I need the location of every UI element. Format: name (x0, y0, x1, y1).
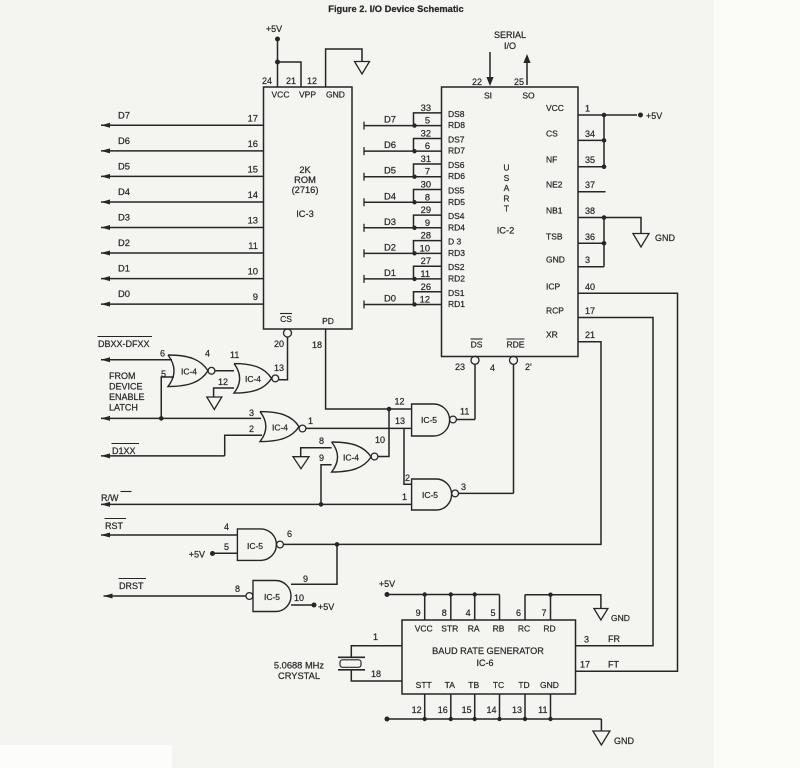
wire USART pin 38 to ground (578, 218, 641, 234)
junction dot pin1/bus (602, 113, 607, 118)
svg-text:IC-4: IC-4 (181, 367, 197, 377)
svg-text:1: 1 (402, 492, 407, 502)
wire RST to gate input 4 (101, 533, 237, 538)
svg-text:33: 33 (421, 103, 431, 113)
output bubble pin 3 (452, 490, 459, 497)
svg-text:9: 9 (253, 291, 258, 302)
svg-text:15: 15 (462, 705, 472, 715)
svg-text:1: 1 (585, 104, 590, 114)
junction dot D4 split (412, 200, 416, 204)
baud gen pin stub 8 (450, 595, 452, 620)
ground symbol (ROM pin 12) (355, 62, 370, 75)
wire data bus D1 to ROM (101, 276, 264, 281)
junction dot bottom rail left (385, 717, 390, 722)
USART pin label DS (471, 339, 483, 350)
node +5V dot (USART) (638, 113, 643, 118)
junction dot D1 split (412, 277, 416, 281)
NOR gate IC-4 (pins 3,2 -> 1) (260, 412, 299, 442)
ground symbol (gate input 8) (293, 457, 309, 469)
wire serial output arrow from SO (523, 54, 530, 85)
svg-text:11: 11 (230, 350, 239, 360)
svg-text:12: 12 (307, 76, 317, 86)
svg-text:10: 10 (420, 243, 430, 253)
wire data bus D0 to ROM (101, 302, 264, 307)
wire +5V rail pins 9,8,4,5 (387, 594, 500, 596)
svg-text:9: 9 (425, 218, 430, 228)
svg-text:+5V: +5V (318, 602, 334, 612)
svg-text:34: 34 (585, 129, 595, 139)
wire USART pin 35 stub (578, 166, 604, 168)
svg-text:6: 6 (160, 349, 165, 359)
svg-text:RB: RB (493, 624, 505, 634)
wire data bus D3 to ROM (101, 225, 264, 230)
ROM CS label (280, 314, 292, 325)
wire RC/RD rail to ground (525, 595, 601, 609)
svg-text:9: 9 (303, 574, 308, 584)
wire ROM PD down to IC-5 input 12 (326, 329, 412, 409)
svg-text:DS5: DS5 (448, 186, 465, 196)
ROM CS bubble (pin 20) (284, 329, 292, 337)
svg-text:SI: SI (484, 91, 492, 101)
svg-text:8: 8 (235, 584, 240, 594)
wire data D4 to USART RD5 (364, 198, 442, 206)
USART IC-2 body (442, 87, 579, 357)
svg-text:DS: DS (471, 340, 483, 350)
wire USART XR pin 21 to IC-5 output 6 (284, 342, 602, 545)
output bubble pin 13 (272, 375, 279, 382)
wire data D5 to USART RD6 (364, 173, 442, 181)
wire +5V to gate input 10 (291, 604, 314, 606)
wire branch to DS6 pin (414, 164, 442, 177)
svg-text:TD: TD (518, 680, 529, 690)
svg-text:11: 11 (538, 705, 547, 715)
svg-text:3: 3 (461, 482, 466, 492)
wire data D3 to USART RD4 (364, 224, 442, 232)
svg-text:23: 23 (455, 362, 465, 372)
svg-text:D7: D7 (118, 109, 130, 120)
junction dot latch/gate5 branch (159, 416, 164, 421)
svg-text:35: 35 (585, 155, 595, 165)
svg-text:D7: D7 (384, 114, 396, 125)
wire crystal pin 18 (351, 670, 402, 681)
svg-text:14: 14 (486, 705, 496, 715)
svg-text:D5: D5 (118, 160, 130, 171)
wire ROM CS to IC-4 output 13 (279, 337, 288, 380)
baud gen pin stub 14 (499, 694, 501, 719)
svg-text:D1XX: D1XX (112, 446, 136, 456)
junction dot pin 34 (602, 138, 607, 143)
wire data D1 to USART RD2 (364, 275, 442, 283)
baud gen pin stub 7 (550, 595, 552, 620)
svg-text:(2716): (2716) (292, 185, 319, 195)
wire +5V to ROM VCC pin 24 (277, 39, 279, 87)
svg-text:SO: SO (522, 91, 535, 101)
svg-text:5.0688 MHz: 5.0688 MHz (274, 661, 324, 671)
svg-text:XR: XR (546, 330, 558, 340)
svg-text:10: 10 (375, 435, 385, 445)
svg-text:D2: D2 (118, 237, 130, 248)
wire RDE to IC-5 output 3 (513, 364, 515, 494)
svg-text:FROM: FROM (109, 371, 136, 381)
svg-text:TSB: TSB (546, 231, 563, 241)
baud rate generator IC-6 body (402, 620, 576, 694)
svg-text:STT: STT (416, 680, 432, 690)
svg-text:FT: FT (608, 660, 619, 670)
svg-text:18: 18 (312, 340, 322, 350)
wire data D2 to USART RD3 (364, 249, 442, 257)
wire branch to DS4 pin (414, 215, 442, 228)
svg-text:RA: RA (468, 624, 480, 634)
svg-text:DS1: DS1 (448, 288, 465, 298)
svg-text:RDE: RDE (507, 340, 525, 350)
svg-text:PD: PD (322, 316, 334, 326)
wire USART pin 36 stub (578, 242, 604, 244)
baud gen pin stub 15 (474, 694, 476, 719)
baud gen FT stub (pin 17) (576, 670, 678, 672)
svg-text:2': 2' (525, 362, 532, 372)
svg-text:TB: TB (468, 680, 479, 690)
NAND gate IC-5 (pins 2,1 -> 3) (412, 479, 452, 510)
svg-text:3: 3 (585, 255, 590, 265)
svg-text:11: 11 (420, 269, 430, 279)
wire IC-4 out 10 to PD node (378, 409, 389, 457)
svg-text:IC-4: IC-4 (245, 374, 261, 384)
svg-text:RD6: RD6 (448, 171, 465, 181)
wire data bus D2 to ROM (101, 251, 264, 256)
wire gate input 8 to ground (301, 448, 332, 457)
svg-text:37: 37 (585, 180, 595, 190)
svg-text:7: 7 (541, 608, 546, 618)
svg-text:RD3: RD3 (448, 248, 465, 258)
svg-text:8: 8 (425, 192, 430, 202)
svg-text:D2: D2 (384, 241, 396, 252)
NAND gate IC-5 (pins 9,10 -> 8, mirrored) (253, 581, 291, 612)
svg-text:21: 21 (286, 76, 296, 86)
junction dot D6 split (412, 149, 416, 153)
junction dot pin 35 (602, 164, 607, 169)
svg-text:6: 6 (425, 141, 430, 151)
svg-text:12: 12 (412, 705, 422, 715)
wire ROM GND pin 12 to ground (326, 49, 362, 87)
svg-text:9: 9 (319, 453, 324, 463)
baud gen pin stub 5 (499, 595, 501, 620)
ground symbol (gate input 12) (207, 397, 222, 410)
svg-text:NF: NF (546, 155, 557, 165)
wire data bus D7 to ROM (101, 123, 264, 128)
svg-text:5: 5 (490, 608, 495, 618)
ROM IC-3 (2K ROM 2716) body (264, 87, 353, 329)
output bubble pin 1 (299, 425, 306, 432)
svg-text:IC-5: IC-5 (421, 415, 437, 425)
USART RDE bubble (pin 2) (510, 356, 518, 364)
svg-text:+5V: +5V (266, 24, 282, 34)
junction dot pin 38 (602, 215, 607, 220)
baud gen pin stub 4 (474, 595, 476, 620)
baud gen FR stub (pin 3) (576, 645, 654, 647)
label SERIAL I/O (494, 30, 526, 51)
wire USART pin 1 VCC to +5V (578, 114, 637, 116)
svg-text:ICP: ICP (546, 281, 561, 291)
wire IC-4 out 4 to IC-4 in 11 (215, 370, 234, 372)
wire data bus D4 to ROM (101, 199, 264, 204)
svg-text:RD1: RD1 (448, 299, 465, 309)
output bubble pin 10 (371, 453, 378, 460)
junction dot PD/IC-4 out 10 node (387, 407, 392, 412)
svg-text:D5: D5 (384, 165, 396, 176)
USART vertical label USART1 (503, 163, 509, 214)
svg-text:17: 17 (585, 306, 595, 316)
wire branch to gate input 5 (161, 377, 174, 418)
svg-text:D3: D3 (118, 212, 130, 223)
svg-text:LATCH: LATCH (109, 403, 138, 413)
svg-text:1: 1 (373, 632, 378, 642)
svg-text:16: 16 (438, 705, 448, 715)
svg-text:3: 3 (584, 635, 589, 645)
baud gen pin stub 6 (524, 595, 526, 620)
wire DBXX-DFXX to gate input 6 (101, 357, 172, 362)
svg-text:11: 11 (460, 407, 469, 417)
ground symbol (baud gen bottom) (593, 731, 610, 745)
wire bottom rail to ground (387, 719, 601, 731)
output bubble pin 4 (208, 367, 215, 374)
svg-text:RCP: RCP (546, 306, 564, 316)
svg-text:R/W: R/W (101, 493, 119, 503)
junction dot bottom rail pin 15 (473, 717, 477, 721)
svg-text:T: T (504, 204, 509, 214)
svg-text:4: 4 (490, 363, 495, 373)
node +5V dot (baud gen) (385, 592, 390, 597)
wire crystal pin 1 (351, 646, 402, 658)
wire branch to DS1 pin (414, 292, 442, 305)
wire data D6 to USART RD7 (364, 147, 442, 155)
wire DS to IC-5 output 11 (474, 364, 476, 420)
crystal 5.0688 MHz label (274, 661, 324, 682)
svg-text:4: 4 (205, 349, 210, 359)
wire USART ICP pin 40 to baud FT (576, 293, 678, 671)
wire to DRST gate input 9 (291, 544, 337, 584)
NOR gate IC-4 (pins 11,12 -> 13) (234, 364, 272, 394)
svg-text:2: 2 (249, 424, 254, 434)
baud gen pin stub 16 (450, 694, 452, 719)
svg-text:RD5: RD5 (448, 197, 465, 207)
node +5V dot (gate pin 10) (312, 603, 317, 608)
svg-text:BAUD RATE GENERATOR: BAUD RATE GENERATOR (432, 646, 544, 656)
svg-text:9: 9 (416, 608, 421, 618)
svg-text:17: 17 (580, 660, 590, 670)
junction dot rail pin 7 (548, 593, 552, 597)
wire branch to DS3 pin (414, 241, 442, 254)
junction dot rail pin 9 (423, 592, 427, 596)
svg-text:+5V: +5V (646, 111, 662, 121)
svg-text:RC: RC (518, 624, 530, 634)
baud gen pin stub 12 (424, 694, 426, 719)
crystal symbol (338, 657, 365, 670)
svg-text:40: 40 (585, 282, 595, 292)
wire branch to VPP pin 21 (278, 62, 302, 87)
baud gen pin stub 9 (424, 595, 426, 620)
label FROM DEVICE ENABLE LATCH (109, 371, 145, 413)
svg-text:6: 6 (287, 529, 292, 539)
wire USART pin 37 stub (nc) (578, 191, 606, 193)
wire IC-4 out 1 to IC-5 in 13 and IC-5 in 2 (306, 428, 412, 484)
wire branch to DS7 pin (414, 138, 442, 151)
svg-text:D4: D4 (118, 186, 130, 197)
svg-text:13: 13 (274, 363, 284, 373)
junction dot rail pin 4 (473, 592, 477, 596)
svg-text:13: 13 (248, 215, 258, 226)
wire gate input 9 to R/W line (321, 465, 332, 505)
svg-text:SERIAL: SERIAL (494, 30, 526, 40)
svg-text:32: 32 (421, 128, 431, 138)
svg-text:+5V: +5V (379, 579, 395, 589)
svg-text:38: 38 (585, 206, 595, 216)
node label DRST (119, 579, 147, 592)
wire branch to DS8 pin (414, 113, 442, 126)
svg-text:IC-5: IC-5 (422, 490, 438, 500)
svg-text:28: 28 (421, 231, 431, 241)
svg-text:GND: GND (611, 613, 630, 623)
svg-text:11: 11 (248, 240, 258, 251)
svg-text:D1: D1 (118, 263, 130, 274)
wire R/W to IC-5 input 1 (101, 502, 412, 507)
wire bus pins 38-36-3 (603, 218, 605, 267)
svg-text:IC-6: IC-6 (476, 658, 493, 668)
svg-text:A: A (504, 183, 510, 193)
svg-text:7: 7 (425, 167, 430, 177)
svg-text:IC-5: IC-5 (247, 541, 263, 551)
node label D1XX (112, 444, 140, 457)
wire serial input arrow into SI (486, 52, 493, 86)
svg-text:RD2: RD2 (448, 273, 465, 283)
svg-text:TC: TC (493, 680, 504, 690)
svg-text:IC-4: IC-4 (343, 453, 359, 463)
wire data bus D6 to ROM (101, 148, 264, 153)
svg-text:22: 22 (472, 77, 482, 87)
svg-text:DS2: DS2 (448, 262, 465, 272)
NOR gate IC-4 (pins 8,9 -> 10) (332, 442, 372, 472)
svg-text:6: 6 (516, 608, 521, 618)
svg-text:GND: GND (540, 680, 559, 690)
svg-text:20: 20 (274, 339, 284, 349)
svg-text:36: 36 (585, 232, 595, 242)
svg-text:GND: GND (326, 90, 345, 100)
junction dot bottom rail pin 16 (449, 717, 453, 721)
svg-text:14: 14 (248, 189, 258, 200)
svg-text:D0: D0 (384, 292, 396, 303)
svg-text:21: 21 (585, 330, 595, 340)
svg-text:24: 24 (262, 76, 272, 86)
svg-text:R: R (503, 193, 509, 203)
svg-text:13: 13 (395, 416, 405, 426)
USART DS bubble (pin 23) (471, 356, 479, 364)
wire data D0 to USART RD1 (364, 300, 442, 308)
svg-text:25: 25 (514, 77, 524, 87)
junction dot D7 split (412, 123, 416, 127)
svg-text:Figure 2. I/O Device Schematic: Figure 2. I/O Device Schematic (328, 4, 463, 14)
svg-text:DS7: DS7 (448, 134, 465, 144)
svg-text:D6: D6 (384, 139, 396, 150)
svg-text:26: 26 (421, 282, 431, 292)
wire device enable latch to gate input 3 (101, 416, 261, 421)
svg-text:2K: 2K (299, 165, 311, 175)
svg-text:IC-4: IC-4 (272, 423, 288, 433)
svg-text:DS8: DS8 (448, 109, 465, 119)
svg-text:1: 1 (308, 416, 313, 426)
ground symbol (RC/RD) (594, 609, 608, 621)
output bubble pin 11 (450, 416, 457, 423)
wire +5V to gate input 5 (213, 552, 238, 554)
svg-text:VCC: VCC (272, 90, 290, 100)
svg-text:8: 8 (319, 436, 324, 446)
junction dot pin 36 (602, 241, 607, 246)
svg-text:D 3: D 3 (448, 237, 462, 247)
svg-text:TA: TA (445, 680, 456, 690)
svg-text:2: 2 (405, 473, 410, 483)
junction dot bottom rail pin 13 (523, 717, 527, 721)
svg-text:15: 15 (248, 163, 258, 174)
svg-text:12: 12 (218, 377, 228, 387)
junction dot D0 split (412, 302, 416, 306)
svg-text:VCC: VCC (546, 103, 564, 113)
svg-text:10: 10 (248, 266, 258, 277)
svg-text:+5V: +5V (189, 550, 205, 560)
svg-text:DBXX-DFXX: DBXX-DFXX (98, 339, 150, 349)
node +5V dot (gate pin 5) (210, 551, 215, 556)
ground symbol (USART pin 38) (633, 234, 649, 248)
junction dot R/W branch (319, 502, 324, 507)
svg-text:4: 4 (466, 608, 471, 618)
svg-text:13: 13 (512, 705, 522, 715)
wire bus pins 1-34-35 (603, 115, 605, 167)
junction dot rail pin 8 (449, 592, 453, 596)
wire branch to DS5 pin (414, 190, 442, 203)
output bubble pin 8 (246, 593, 253, 600)
svg-text:5: 5 (425, 116, 430, 126)
svg-text:GND: GND (546, 255, 565, 265)
svg-text:RD4: RD4 (448, 222, 465, 232)
svg-text:CS: CS (546, 128, 558, 138)
wire IC-5 out 3 to USART RDE (459, 492, 514, 494)
svg-text:D0: D0 (118, 288, 130, 299)
baud gen pin stub 13 (524, 694, 526, 719)
svg-text:RD: RD (543, 624, 555, 634)
wire USART pin 3 stub (578, 266, 604, 268)
junction dot XR/DRST branch (335, 542, 340, 547)
svg-text:RD8: RD8 (448, 120, 465, 130)
svg-text:NE2: NE2 (546, 180, 563, 190)
svg-text:29: 29 (421, 205, 431, 215)
output bubble pin 6 (277, 541, 284, 548)
junction dot bottom rail pin 11 (548, 717, 552, 721)
svg-text:VPP: VPP (299, 90, 316, 100)
svg-text:CS: CS (280, 314, 292, 324)
ROM label 2K ROM (2716) (292, 165, 319, 195)
node label RST (105, 519, 127, 532)
wire DRST output (104, 594, 247, 599)
junction dot D3 split (412, 226, 416, 230)
wire USART RCP pin 17 to baud FR (576, 318, 654, 646)
svg-text:I/O: I/O (504, 41, 516, 51)
svg-text:NB1: NB1 (546, 206, 563, 216)
junction dot bottom rail pin 14 (497, 717, 501, 721)
svg-text:RST: RST (105, 521, 124, 531)
svg-text:D4: D4 (384, 190, 396, 201)
wire data bus D5 to ROM (101, 174, 264, 179)
node label DBXX-DFXX (98, 337, 153, 350)
svg-text:IC-3: IC-3 (296, 209, 314, 219)
svg-text:S: S (504, 173, 510, 183)
svg-text:RD7: RD7 (448, 146, 465, 156)
